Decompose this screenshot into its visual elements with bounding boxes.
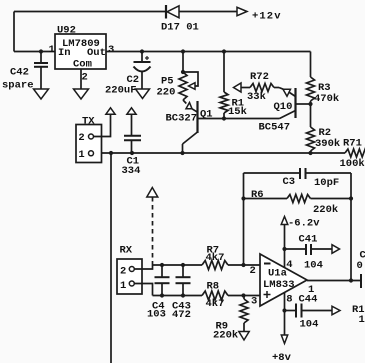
wire diode to +12v arrow (179, 11, 237, 13)
svg-text:2: 2 (250, 265, 256, 277)
svg-text:C41: C41 (299, 234, 318, 246)
svg-text:-6.2v: -6.2v (288, 218, 320, 230)
svg-text:spare: spare (2, 80, 34, 92)
svg-text:D17 01: D17 01 (161, 22, 199, 34)
capacitor C42 (40, 52, 42, 63)
connector TX (76, 125, 102, 163)
svg-text:Com: Com (73, 59, 92, 71)
svg-text:220k: 220k (313, 204, 338, 216)
resistor R9 220k (243, 296, 245, 300)
svg-text:2: 2 (82, 72, 88, 84)
svg-text:4: 4 (286, 259, 292, 271)
arrow C1 up (127, 108, 136, 114)
svg-text:390k: 390k (315, 138, 340, 150)
wire U92 output rail (106, 51, 311, 53)
wire +12v rail left segment (14, 11, 165, 13)
svg-text:U92: U92 (57, 25, 76, 37)
wire U92 com to ground (80, 69, 82, 89)
R71 body (345, 149, 365, 157)
capacitor C4 103 (161, 265, 163, 277)
svg-text:3: 3 (251, 296, 257, 308)
P5 resistor body (179, 72, 187, 100)
svg-text:104: 104 (304, 260, 323, 272)
P5 wiper link (183, 72, 198, 86)
svg-text:R72: R72 (250, 71, 269, 83)
capacitor C3 10pF (244, 172, 300, 174)
op-amp plus sign (264, 294, 271, 296)
R3 body (307, 77, 315, 101)
resistor R3 470k (310, 52, 312, 78)
svg-text:2: 2 (120, 266, 126, 278)
svg-text:R8: R8 (207, 281, 220, 293)
wire pin2 rail (153, 264, 203, 266)
svg-text:8: 8 (286, 294, 292, 306)
svg-text:R71: R71 (343, 138, 362, 150)
R2 body (307, 127, 315, 151)
wire pin3 rail (153, 295, 203, 297)
IC U92 LM7809 (55, 34, 106, 69)
R8 body (202, 291, 228, 300)
svg-text:C3: C3 (283, 176, 296, 188)
node +8v supply (284, 293, 286, 336)
svg-text:Q10: Q10 (274, 101, 293, 113)
wire feedback vertical (243, 173, 245, 265)
resistor R6 220k (244, 198, 288, 200)
svg-text:1: 1 (359, 314, 365, 326)
Q10 base bar (294, 88, 296, 118)
capacitor C43 472 (182, 265, 184, 277)
Q10 collector diagonal (280, 111, 296, 119)
capacitor C2 220uF (141, 52, 143, 62)
svg-text:Out: Out (87, 47, 106, 59)
arrow +12v terminal (237, 7, 247, 15)
svg-text:+8v: +8v (272, 352, 292, 363)
wire Q1 base line (198, 118, 280, 120)
potentiometer P5 220 (182, 52, 184, 73)
svg-text:104: 104 (300, 319, 319, 331)
svg-text:U1a: U1a (268, 268, 288, 280)
Q10 emitter arrow (283, 89, 291, 96)
capacitor C output coupling (360, 274, 362, 288)
svg-text:103: 103 (147, 309, 166, 321)
svg-text:220uF: 220uF (105, 85, 137, 97)
svg-text:1: 1 (78, 149, 84, 161)
diode D17 (165, 5, 167, 19)
capacitor C41 104 (285, 248, 306, 250)
capacitor C44 104 (285, 310, 296, 312)
svg-text:RX: RX (120, 245, 133, 257)
svg-text:1: 1 (49, 44, 55, 56)
wire RX pin1 jog (134, 284, 152, 296)
ground C2 (136, 89, 150, 99)
dashed shield wire (152, 197, 154, 265)
wire left vertical down to U92 input (13, 12, 15, 52)
svg-text:3: 3 (108, 44, 114, 56)
svg-text:10pF: 10pF (314, 177, 339, 189)
arrow +8v down (281, 335, 287, 344)
svg-text:15k: 15k (228, 106, 247, 118)
svg-text:R6: R6 (251, 189, 264, 201)
Q1 base bar (196, 101, 198, 133)
Q1 collector diagonal (183, 132, 198, 144)
R6 body (287, 195, 311, 203)
Q1 emitter link (192, 109, 198, 112)
ground U92 com (74, 89, 89, 99)
svg-text:472: 472 (172, 309, 191, 321)
svg-text:334: 334 (122, 165, 141, 177)
wire R8 to op-amp pin3 (228, 295, 260, 297)
svg-text:TX: TX (82, 116, 95, 128)
R72 left arrow (234, 83, 242, 92)
Q1 emitter wire (183, 100, 186, 104)
R72 body (250, 84, 274, 92)
svg-text:In: In (58, 47, 71, 59)
svg-text:1: 1 (120, 280, 126, 292)
op-amp minus sign (264, 263, 271, 265)
wire mid rail (94, 152, 346, 154)
svg-text:220k: 220k (213, 330, 238, 342)
node -6.2v supply (284, 225, 286, 268)
wire R7 to op-amp pin2 (228, 264, 260, 266)
R7 body (202, 261, 228, 270)
wire R3 to R2 (310, 101, 312, 127)
Q10 emitter link (290, 93, 296, 97)
connector RX (117, 259, 142, 294)
wire feedback right vertical (350, 173, 352, 281)
svg-text:+12v: +12v (252, 11, 282, 23)
arrow -6.2v (281, 217, 288, 225)
P5 wiper arrow (189, 83, 196, 90)
Q10 base line (296, 103, 311, 105)
svg-text:33k: 33k (247, 91, 266, 103)
R1 body (220, 92, 228, 113)
svg-text:C44: C44 (299, 294, 318, 306)
svg-text:470k: 470k (314, 93, 339, 105)
svg-text:2: 2 (78, 132, 84, 144)
svg-text:4k7: 4k7 (206, 252, 225, 264)
ground R9 (239, 332, 249, 341)
arrow C41 right (332, 245, 340, 254)
svg-text:100k: 100k (340, 158, 365, 170)
svg-text:BC327: BC327 (166, 113, 198, 125)
Q1 emitter arrow (186, 103, 192, 109)
wire into U92 pin1 (14, 51, 55, 53)
svg-text:4k7: 4k7 (206, 298, 225, 310)
Q10 emitter wire (279, 88, 284, 90)
op-amp U1a LM833 (260, 254, 307, 306)
R9 body (240, 299, 248, 323)
arrow TX pin2 up (106, 108, 115, 114)
ground C42 (34, 89, 49, 99)
resistor R1 15k (223, 52, 225, 93)
wire RX pin2 jog (134, 265, 152, 269)
arrow shield up (147, 188, 158, 198)
svg-text:BC547: BC547 (259, 122, 291, 134)
wire TX pin1 down to edge (110, 153, 112, 363)
svg-text:220: 220 (157, 87, 176, 99)
svg-text:C42: C42 (10, 67, 29, 79)
wire TX pin2 up (94, 114, 111, 136)
Q1 collector lead (182, 144, 184, 153)
arrow C44 right (332, 306, 340, 315)
svg-text:0.: 0. (357, 260, 365, 272)
wire op-amp output (307, 280, 361, 282)
svg-text:LM833: LM833 (263, 279, 295, 291)
